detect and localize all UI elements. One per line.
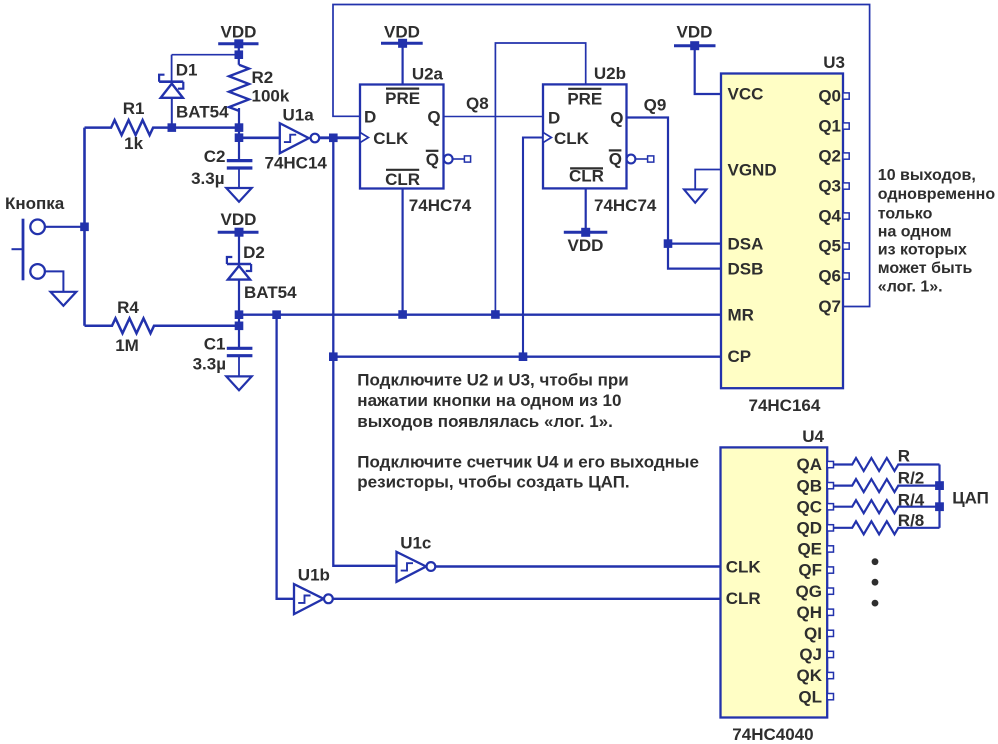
svg-text:BAT54: BAT54	[176, 103, 229, 122]
svg-text:QF: QF	[798, 561, 822, 580]
wire Q9 from U2b Q down to DSB	[627, 118, 722, 269]
junction Q9 / DSA	[664, 239, 673, 248]
svg-text:VDD: VDD	[221, 210, 257, 229]
svg-text:только: только	[878, 205, 933, 222]
svg-text:Q: Q	[610, 109, 623, 128]
VGND ground symbol	[684, 170, 721, 203]
wire DSA	[668, 243, 721, 245]
svg-text:одновременно: одновременно	[878, 186, 996, 203]
svg-text:резисторы, чтобы создать ЦАП.: резисторы, чтобы создать ЦАП.	[357, 472, 629, 491]
junction U1a output node	[329, 134, 338, 143]
svg-text:QI: QI	[804, 624, 822, 643]
svg-text:74HC74: 74HC74	[409, 196, 472, 215]
wire U2a CLR to MR line	[402, 189, 404, 315]
svg-text:VDD: VDD	[384, 23, 420, 42]
junction bus / R4 resistor	[935, 502, 944, 511]
svg-text:Q7: Q7	[818, 297, 841, 316]
power VDD above D2	[218, 210, 259, 264]
junction CP / U2b CLK	[519, 352, 528, 361]
svg-text:CLK: CLK	[726, 558, 762, 577]
inverted output stub U2b	[627, 155, 654, 164]
svg-text:DSB: DSB	[728, 259, 764, 278]
pin label Qbar (U2a)	[426, 150, 439, 169]
svg-text:U3: U3	[823, 53, 845, 72]
svg-text:U1b: U1b	[298, 566, 330, 585]
schmitt inverter U1a	[239, 123, 360, 153]
power VDD above R2	[218, 23, 258, 65]
svg-text:1M: 1M	[115, 336, 139, 355]
wire U1b output to CLR of U4	[333, 598, 721, 600]
resistor R (QA)	[834, 458, 940, 471]
resistor R1	[85, 120, 240, 135]
junction R1 / R2	[235, 123, 244, 132]
svg-text:QG: QG	[796, 582, 822, 601]
wire U1a node down to U1c input	[333, 139, 396, 566]
wire button node vertical	[83, 128, 86, 326]
svg-text:Подключите U2 и U3, чтобы при: Подключите U2 и U3, чтобы при	[357, 371, 628, 390]
wire U2b CLR to VDD	[585, 189, 587, 233]
svg-text:BAT54: BAT54	[244, 283, 297, 302]
junction R4 node	[235, 322, 244, 331]
ellipsis dots	[872, 558, 879, 606]
svg-text:Q8: Q8	[466, 94, 489, 113]
svg-text:74HC164: 74HC164	[749, 396, 821, 415]
svg-text:1k: 1k	[124, 134, 143, 153]
diode D1 BAT54	[159, 55, 183, 128]
svg-text:3.3µ: 3.3µ	[191, 169, 224, 188]
svg-text:VCC: VCC	[728, 85, 764, 104]
svg-text:Подключите счетчик U4 и его вы: Подключите счетчик U4 и его выходные	[357, 453, 699, 472]
svg-text:C1: C1	[204, 335, 226, 354]
power VDD above U2a	[381, 23, 423, 85]
junction R2 / C2 / U1a	[235, 133, 244, 142]
IC U3 74HC164	[721, 74, 843, 389]
svg-text:Q5: Q5	[818, 237, 841, 256]
pin labels QA-QL	[796, 455, 823, 706]
svg-text:74HC14: 74HC14	[265, 154, 328, 173]
inverted output stub U2a	[444, 155, 471, 164]
svg-text:VGND: VGND	[728, 161, 777, 180]
junction MR / U1b branch	[272, 310, 281, 319]
wire R2 bottom to C2	[238, 108, 240, 161]
svg-text:R4: R4	[117, 298, 139, 317]
svg-text:CLK: CLK	[373, 129, 409, 148]
svg-text:3.3µ: 3.3µ	[193, 355, 226, 374]
svg-text:Q0: Q0	[818, 87, 841, 106]
IC U4 74HC4040	[721, 447, 828, 717]
svg-text:10 выходов,: 10 выходов,	[878, 167, 976, 184]
svg-text:C2: C2	[204, 147, 226, 166]
pin label CLR (U2b)	[569, 167, 604, 186]
resistor R/2 (QB)	[834, 479, 940, 492]
svg-text:QK: QK	[797, 666, 823, 685]
resistor R/4 (QC)	[834, 500, 940, 513]
pin labels Q0-Q7	[818, 87, 841, 317]
svg-text:на одном: на одном	[878, 224, 952, 241]
power VDD below U2b	[564, 228, 608, 255]
svg-text:R/4: R/4	[898, 490, 925, 509]
svg-text:QL: QL	[798, 687, 822, 706]
svg-text:D1: D1	[176, 61, 198, 80]
svg-text:«лог. 1».: «лог. 1».	[878, 278, 943, 295]
svg-text:Q6: Q6	[818, 267, 841, 286]
power VDD above U3	[674, 23, 721, 95]
junction R1 / D1	[168, 123, 177, 132]
junction PRE net / MR line	[491, 310, 500, 319]
ground under C2	[226, 188, 251, 202]
svg-text:Q: Q	[609, 150, 622, 169]
svg-text:QA: QA	[797, 455, 823, 474]
junction VDD / D1 branch	[235, 50, 244, 59]
svg-text:CLR: CLR	[726, 589, 761, 608]
wire button bottom contact to ground	[45, 271, 64, 291]
pin stubs QA-QL	[827, 461, 833, 699]
pushbutton switch	[12, 219, 45, 281]
svg-text:QD: QD	[797, 519, 823, 538]
svg-text:VDD: VDD	[568, 236, 604, 255]
wire U1c output to CLK of U4	[435, 565, 720, 567]
svg-text:CP: CP	[728, 347, 752, 366]
svg-text:Q9: Q9	[644, 96, 667, 115]
svg-text:из которых: из которых	[878, 242, 967, 259]
svg-text:R2: R2	[252, 68, 274, 87]
svg-text:D: D	[364, 108, 376, 127]
ground under button	[51, 292, 77, 306]
svg-text:нажатии кнопки на одном из 10: нажатии кнопки на одном из 10	[357, 391, 621, 410]
svg-text:74HC74: 74HC74	[594, 196, 657, 215]
svg-text:R/8: R/8	[898, 511, 924, 530]
pin label PRE (U2a)	[385, 89, 420, 109]
junction node / CP line	[329, 352, 338, 361]
svg-text:QE: QE	[797, 540, 822, 559]
resistor R4	[85, 318, 240, 333]
pin label Qbar (U2b)	[609, 150, 622, 169]
wire CP line	[333, 356, 721, 358]
svg-text:ЦАП: ЦАП	[952, 489, 989, 508]
svg-text:74HC4040: 74HC4040	[732, 725, 813, 744]
svg-text:PRE: PRE	[567, 89, 602, 108]
svg-text:D: D	[548, 109, 560, 128]
junction button node	[80, 223, 89, 232]
svg-text:U2b: U2b	[594, 64, 626, 83]
feedback wire Q7 to D of U2a	[333, 5, 870, 307]
svg-text:выходов появлялась «лог. 1».: выходов появлялась «лог. 1».	[357, 412, 613, 431]
svg-text:U1a: U1a	[283, 106, 315, 125]
svg-text:U1c: U1c	[400, 534, 431, 553]
svg-text:D2: D2	[243, 243, 265, 262]
svg-text:MR: MR	[728, 305, 754, 324]
wire Q8 (U2a Q to U2b D)	[444, 116, 544, 118]
svg-text:CLR: CLR	[385, 170, 420, 189]
flip-flop U2a 74HC74	[360, 85, 444, 189]
svg-text:Q2: Q2	[818, 147, 841, 166]
svg-text:R: R	[898, 447, 910, 466]
junction D2 / MR line	[235, 310, 244, 319]
flip-flop U2b 74HC74	[543, 84, 627, 188]
junction bus / R2 resistor	[935, 481, 944, 490]
wire VDD branch to D1	[172, 54, 239, 56]
diode D2 BAT54	[227, 257, 251, 348]
ground under C1	[226, 376, 251, 390]
svg-text:QB: QB	[797, 476, 823, 495]
pin stubs Q0-Q6	[843, 93, 849, 279]
svg-text:Q: Q	[426, 150, 439, 169]
schmitt inverter U1c	[397, 552, 436, 582]
svg-text:Q3: Q3	[818, 177, 841, 196]
svg-text:VDD: VDD	[221, 23, 257, 42]
svg-text:U4: U4	[802, 427, 824, 446]
capacitor C2	[227, 161, 253, 188]
svg-text:R1: R1	[123, 99, 145, 118]
svg-text:Q: Q	[427, 108, 440, 127]
wire U2b CLK to CP	[523, 138, 543, 357]
svg-text:PRE: PRE	[385, 89, 420, 108]
svg-text:100k: 100k	[252, 87, 290, 106]
annotation middle	[357, 371, 699, 492]
wire MR line down to U1b input	[277, 315, 294, 599]
svg-text:Q1: Q1	[818, 117, 841, 136]
svg-text:VDD: VDD	[677, 23, 713, 42]
pin label CLR (U2a)	[385, 170, 420, 189]
svg-text:QJ: QJ	[799, 645, 822, 664]
capacitor C1	[227, 348, 253, 376]
schmitt inverter U1b	[294, 584, 333, 614]
svg-text:Кнопка: Кнопка	[5, 194, 65, 213]
resistor R2	[229, 65, 249, 111]
svg-text:Q4: Q4	[818, 207, 841, 226]
resistor R/8 (QD)	[834, 521, 940, 534]
wire U2b PRE to MR line	[495, 43, 585, 315]
wire MR line	[239, 314, 721, 316]
pin label PRE (U2b)	[567, 89, 602, 109]
junction U2a / MR line	[398, 310, 407, 319]
wire DAC summing bus	[938, 465, 940, 528]
wire button top contact to node	[45, 226, 85, 228]
svg-text:может быть: может быть	[878, 260, 973, 277]
svg-text:QC: QC	[797, 497, 823, 516]
svg-text:DSA: DSA	[728, 234, 764, 253]
svg-text:R/2: R/2	[898, 469, 924, 488]
annotation right of U3	[878, 167, 996, 295]
svg-text:QH: QH	[797, 603, 823, 622]
svg-text:U2a: U2a	[412, 65, 444, 84]
svg-text:CLK: CLK	[554, 129, 590, 148]
